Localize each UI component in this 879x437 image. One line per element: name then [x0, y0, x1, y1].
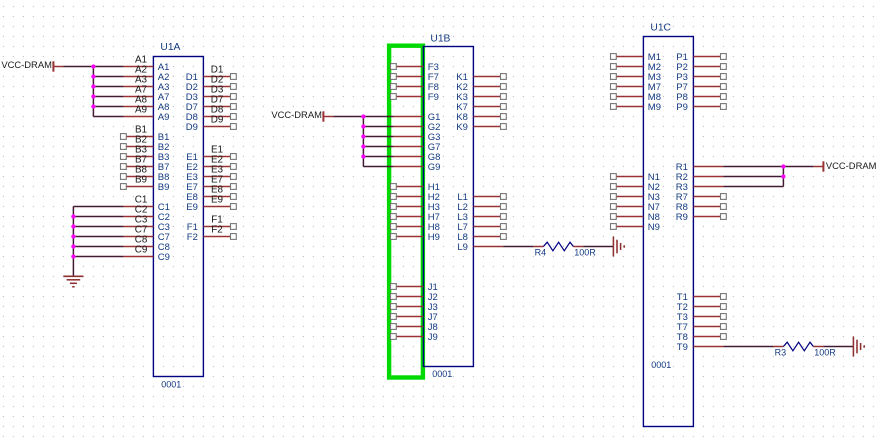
junction [71, 234, 75, 238]
pin R1 of U1C [676, 162, 724, 173]
net label D3 [211, 85, 224, 96]
pin M7 of U1C [611, 82, 662, 93]
svg-text:C9: C9 [158, 252, 170, 263]
part value 0001 (U1A) [161, 380, 181, 390]
label R3 [775, 348, 787, 358]
pin J1 of U1B [391, 282, 438, 293]
junction [361, 124, 365, 128]
svg-text:U1B: U1B [430, 34, 450, 45]
pin L1 of U1B [457, 192, 506, 203]
net label F1 [211, 215, 223, 226]
pin D2 of U1A [186, 82, 237, 93]
net label A9 [135, 105, 148, 116]
pin C3 of U1A [123, 222, 170, 233]
pin N3 of U1C [611, 192, 660, 203]
svg-text:R3: R3 [775, 348, 787, 358]
net label E7 [211, 175, 223, 186]
wire ground bus to pin row y=226.5 [73, 226, 123, 228]
svg-text:0001: 0001 [651, 360, 671, 370]
svg-text:F2: F2 [211, 225, 223, 236]
pin J9 of U1B [391, 332, 438, 343]
pin B8 of U1A [121, 172, 170, 183]
wire G-bus to pin row y=156.5 [363, 156, 393, 158]
junction [91, 74, 95, 78]
pin A8 of U1A [123, 102, 169, 113]
junction [91, 94, 95, 98]
svg-text:F9: F9 [428, 92, 439, 103]
pin P3 of U1C [676, 72, 726, 83]
svg-text:E9: E9 [211, 195, 224, 206]
pin L2 of U1B [457, 202, 506, 213]
pin H7 of U1B [391, 212, 440, 223]
ground (R3) [853, 337, 864, 357]
power port VCC-DRAM (U1A) [1, 59, 63, 72]
svg-text:R4: R4 [535, 248, 547, 258]
pin N7 of U1C [611, 202, 660, 213]
pin H9 of U1B [391, 232, 440, 243]
svg-text:VCC-DRAM: VCC-DRAM [826, 160, 877, 171]
net label E3 [211, 165, 224, 176]
wire G-bus to pin row y=146.5 [363, 146, 393, 148]
wire R-bus vertical [782, 167, 784, 187]
net label D1 [211, 65, 224, 76]
junction [71, 254, 75, 258]
pin K2 of U1B [456, 82, 506, 93]
net label C1 [135, 195, 148, 206]
svg-text:E9: E9 [186, 202, 198, 213]
pin R9 of U1C [676, 212, 727, 223]
power port VCC-DRAM (U1B) [271, 109, 333, 122]
wire A-bus to pin row y=96.5 [93, 96, 123, 98]
pin L8 of U1B [457, 232, 506, 243]
wire VCC-DRAM to A-bus (row A1) [63, 66, 123, 68]
pin G2 of U1B [393, 122, 440, 133]
svg-text:0001: 0001 [432, 369, 452, 379]
pin D1 of U1A [186, 72, 237, 83]
pin P7 of U1C [676, 82, 726, 93]
part value 0001 (U1C) [651, 360, 671, 370]
pin B3 of U1A [121, 152, 170, 163]
pin G9 of U1B [393, 162, 440, 173]
net label C8 [135, 235, 148, 246]
pin H3 of U1B [391, 202, 440, 213]
pin E3 of U1A [186, 172, 236, 183]
svg-text:A9: A9 [158, 112, 170, 123]
svg-text:0001: 0001 [161, 380, 181, 390]
pin R3 of U1C [676, 182, 724, 193]
pin K9 of U1B [456, 122, 506, 133]
wire L9 to R4 [503, 246, 533, 248]
pin P1 of U1C [676, 52, 726, 63]
pin P8 of U1C [676, 92, 726, 103]
svg-text:D9: D9 [211, 115, 224, 126]
pin N8 of U1C [611, 212, 660, 223]
pin C2 of U1A [123, 212, 170, 223]
junction [361, 144, 365, 148]
net label E2 [211, 155, 223, 166]
pin K1 of U1B [456, 72, 506, 83]
svg-text:100R: 100R [814, 348, 836, 358]
net label C2 [135, 205, 148, 216]
svg-text:T9: T9 [677, 342, 688, 353]
svg-text:P9: P9 [676, 102, 688, 113]
designator U1A [160, 42, 180, 53]
svg-text:M9: M9 [648, 102, 661, 113]
resistor R3 [773, 342, 823, 351]
IC U1A component body [153, 57, 203, 377]
pin E2 of U1A [186, 162, 236, 173]
pin N1 of U1C [611, 172, 660, 183]
IC U1C component body [643, 37, 693, 427]
pin D9 of U1A [186, 122, 237, 133]
pin G1 of U1B [393, 112, 440, 123]
pin J2 of U1B [391, 292, 438, 303]
power port VCC-DRAM (U1C) [813, 160, 876, 172]
pin B1 of U1A [121, 132, 170, 143]
pin R7 of U1C [676, 192, 727, 203]
net label F2 [211, 225, 223, 236]
pin L3 of U1B [457, 212, 506, 223]
wire R1 to VCC-DRAM [723, 166, 813, 168]
net label B8 [135, 165, 148, 176]
pin C8 of U1A [123, 242, 170, 253]
pin M3 of U1C [611, 72, 662, 83]
junction [91, 64, 95, 68]
pin T1 of U1C [677, 292, 726, 303]
wire T9 to R3 [723, 346, 773, 348]
net label B7 [135, 155, 147, 166]
pin K3 of U1B [456, 92, 506, 103]
junction [361, 134, 365, 138]
svg-text:U1C: U1C [650, 22, 671, 33]
svg-text:R9: R9 [676, 212, 688, 223]
designator U1C [650, 22, 671, 33]
net label A1 [135, 55, 148, 66]
wire A-bus to pin A9 [93, 116, 123, 118]
wire VCC-DRAM to G-bus (row G1) [333, 116, 393, 118]
pin P2 of U1C [676, 62, 726, 73]
junction [91, 104, 95, 108]
junction [361, 154, 365, 158]
wire ground bus to pin row y=216.5 [73, 216, 123, 218]
pin E1 of U1A [186, 152, 236, 163]
svg-text:N9: N9 [648, 222, 660, 233]
svg-text:U1A: U1A [160, 42, 180, 53]
wire ground bus vertical [72, 207, 74, 277]
wire G-bus vertical [362, 117, 364, 167]
net label B9 [135, 175, 148, 186]
wire ground bus to pin row y=246.5 [73, 246, 123, 248]
svg-text:H9: H9 [428, 232, 440, 243]
pin T8 of U1C [677, 332, 726, 343]
wire C1 to ground bus [73, 206, 123, 208]
pin L7 of U1B [457, 222, 506, 233]
svg-text:B9: B9 [135, 175, 148, 186]
value 100R (R3) [814, 348, 836, 358]
pin D3 of U1A [186, 92, 237, 103]
net label C9 [135, 245, 148, 256]
pin G3 of U1B [393, 132, 440, 143]
svg-text:A9: A9 [135, 105, 148, 116]
wire R3 to ground [823, 346, 853, 348]
pin E8 of U1A [186, 192, 236, 203]
wire ground bus to pin row y=236.5 [73, 236, 123, 238]
ground (R4) [613, 237, 624, 257]
resistor R4 [533, 242, 583, 251]
pin D8 of U1A [186, 112, 237, 123]
wire R3 to bus [723, 186, 783, 188]
junction [71, 224, 75, 228]
pin F1 of U1A [187, 222, 236, 233]
pin T9 of U1C [677, 342, 724, 353]
pin J7 of U1B [391, 312, 438, 323]
label R4 [535, 248, 547, 258]
net label E9 [211, 195, 224, 206]
wire R4 to ground [583, 246, 613, 248]
svg-text:F2: F2 [187, 232, 198, 243]
pin T3 of U1C [677, 312, 726, 323]
svg-text:K9: K9 [456, 122, 468, 133]
value 100R (R4) [574, 248, 596, 258]
svg-text:VCC-DRAM: VCC-DRAM [1, 59, 52, 70]
net label A8 [135, 95, 148, 106]
net label E8 [211, 185, 224, 196]
pin A1 of U1A [123, 62, 169, 73]
pin A3 of U1A [123, 82, 169, 93]
pin J3 of U1B [391, 302, 438, 313]
junction [781, 164, 785, 168]
svg-text:VCC-DRAM: VCC-DRAM [271, 109, 322, 120]
junction [781, 174, 785, 178]
pin M1 of U1C [611, 52, 662, 63]
pin T2 of U1C [677, 302, 726, 313]
green selection rectangle around U1B left pins [389, 46, 423, 378]
pin C9 of U1A [123, 252, 170, 263]
pin T7 of U1C [677, 322, 726, 333]
pin N2 of U1C [611, 182, 660, 193]
pin F9 of U1B [391, 92, 439, 103]
svg-text:100R: 100R [574, 248, 596, 258]
pin G7 of U1B [393, 142, 440, 153]
net label A2 [135, 65, 147, 76]
net label B1 [135, 125, 148, 136]
pin A2 of U1A [123, 72, 169, 83]
pin H1 of U1B [391, 182, 440, 193]
net label B2 [135, 135, 147, 146]
pin E9 of U1A [186, 202, 236, 213]
junction [71, 244, 75, 248]
pin G8 of U1B [393, 152, 440, 163]
pin F8 of U1B [391, 82, 439, 93]
wire A-bus vertical [92, 67, 94, 117]
net label C7 [135, 225, 148, 236]
net label B3 [135, 145, 148, 156]
pin F2 of U1A [187, 232, 236, 243]
pin M2 of U1C [611, 62, 662, 73]
pin E7 of U1A [186, 182, 236, 193]
svg-text:C9: C9 [135, 245, 148, 256]
wire A-bus to pin row y=76.5 [93, 76, 123, 78]
pin K8 of U1B [456, 112, 506, 123]
pin P9 of U1C [676, 102, 726, 113]
pin M8 of U1C [611, 92, 662, 103]
svg-text:J9: J9 [428, 332, 438, 343]
pin B7 of U1A [121, 162, 170, 173]
net label E1 [211, 145, 224, 156]
pin R2 of U1C [676, 172, 724, 183]
designator U1B [430, 34, 450, 45]
pin B9 of U1A [121, 182, 170, 193]
IC U1B component body [423, 47, 473, 367]
pin C1 of U1A [123, 202, 170, 213]
ground (U1A C-group) [63, 276, 83, 287]
net label D2 [211, 75, 224, 86]
pin D7 of U1A [186, 102, 237, 113]
part value 0001 (U1B) [432, 369, 452, 379]
pin F7 of U1B [391, 72, 439, 83]
svg-text:L9: L9 [457, 242, 468, 253]
wire ground bus to pin row y=256.5 [73, 256, 123, 258]
svg-text:B9: B9 [158, 182, 170, 193]
junction [361, 114, 365, 118]
pin L9 of U1B [457, 242, 503, 253]
net label A3 [135, 75, 148, 86]
pin J8 of U1B [391, 322, 438, 333]
wire G-bus to pin row y=136.5 [363, 136, 393, 138]
wire G-bus to pin G9 [363, 166, 393, 168]
wire A-bus to pin row y=106.5 [93, 106, 123, 108]
pin M9 of U1C [611, 102, 662, 113]
wire G-bus to pin row y=126.5 [363, 126, 393, 128]
junction [71, 214, 75, 218]
pin A9 of U1A [123, 112, 169, 123]
wire A-bus to pin row y=86.5 [93, 86, 123, 88]
svg-text:G9: G9 [428, 162, 441, 173]
pin F3 of U1B [391, 62, 439, 73]
net label D7 [211, 95, 224, 106]
junction [91, 84, 95, 88]
net label D8 [211, 105, 224, 116]
pin K7 of U1B [456, 102, 506, 113]
pin H8 of U1B [391, 222, 440, 233]
pin A7 of U1A [123, 92, 169, 103]
net label C3 [135, 215, 148, 226]
pin C7 of U1A [123, 232, 170, 243]
pin H2 of U1B [391, 192, 440, 203]
pin B2 of U1A [121, 142, 170, 153]
pin N9 of U1C [611, 222, 660, 233]
wire R2 to bus [723, 176, 783, 178]
net label A7 [135, 85, 147, 96]
svg-text:D9: D9 [186, 122, 198, 133]
net label D9 [211, 115, 224, 126]
pin R8 of U1C [676, 202, 727, 213]
